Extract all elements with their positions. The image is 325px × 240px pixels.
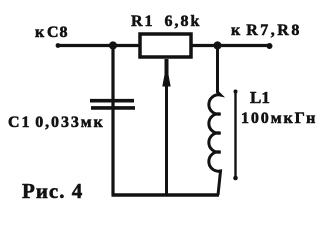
svg-text:C1 0,033мк: C1 0,033мк bbox=[8, 114, 105, 131]
node: junction of C1 branch with top wire bbox=[109, 41, 117, 49]
svg-text:100мкГн: 100мкГн bbox=[241, 110, 317, 127]
svg-text:R1 6,8k: R1 6,8k bbox=[131, 13, 201, 30]
capacitor C1 bottom plate bbox=[91, 106, 135, 110]
svg-text:L1: L1 bbox=[250, 88, 270, 107]
wire: left vertical branch through C1 bbox=[111, 46, 114, 196]
node: right wire end terminal bbox=[267, 43, 273, 49]
capacitor C1 top plate bbox=[90, 99, 134, 103]
node: left wire end terminal bbox=[56, 43, 61, 48]
wire: bottom horizontal net bbox=[112, 193, 220, 197]
svg-text:к C8: к C8 bbox=[35, 24, 68, 41]
node: junction of L1 branch with top wire bbox=[213, 41, 221, 49]
svg-text:Рис. 4: Рис. 4 bbox=[22, 179, 83, 203]
wiper arrow of R1 bbox=[165, 59, 169, 75]
inductor L1 winding with leads bbox=[209, 46, 221, 196]
wire: top horizontal net from к C8 to к R7,R8 bbox=[57, 44, 271, 47]
resistor R1 (potentiometer body) bbox=[140, 34, 191, 57]
core line of L1 bbox=[234, 91, 236, 179]
wire: potentiometer wiper lead down to bottom wire bbox=[165, 59, 168, 195]
svg-text:к R7,R8: к R7,R8 bbox=[231, 22, 302, 39]
